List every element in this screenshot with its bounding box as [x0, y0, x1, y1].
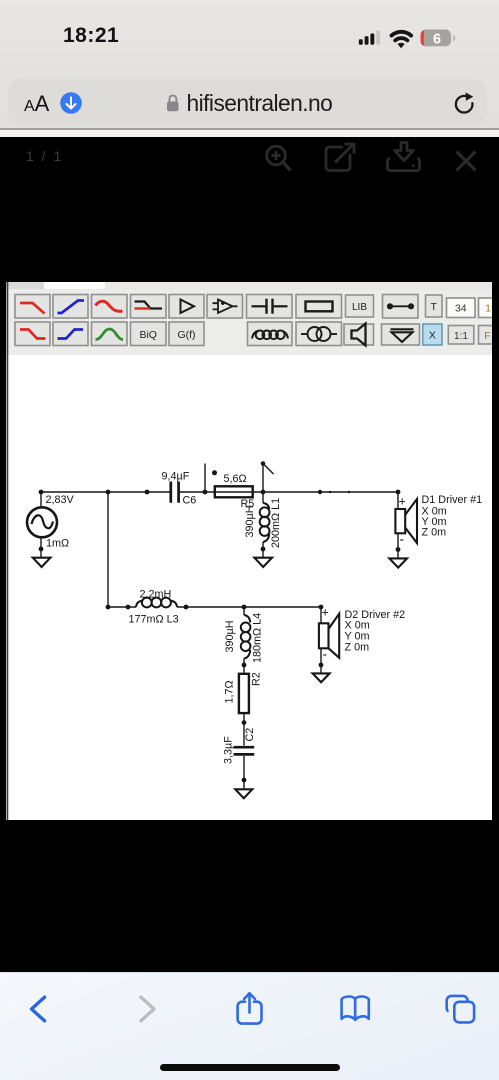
wire lower left segment: [108, 606, 136, 608]
glyph lowpass red: [20, 303, 45, 314]
svg-text:Z 0m: Z 0m: [422, 527, 447, 539]
svg-text:2,2mH: 2,2mH: [140, 589, 172, 601]
bottom toolbar: [0, 972, 499, 1080]
glyph capacitor: [252, 299, 288, 314]
button G(f): [169, 322, 204, 346]
wire diagonal whisker: [263, 464, 274, 475]
svg-text:6: 6: [433, 32, 441, 48]
wire D1 top lead: [397, 492, 399, 509]
wire L1 bottom lead: [262, 542, 264, 557]
svg-text:1: 1: [485, 302, 491, 314]
white PDF page: [6, 282, 492, 820]
wire D2 top lead: [320, 607, 322, 623]
capacitor C2: [234, 747, 255, 754]
button opamp: [207, 295, 243, 319]
glyph ground-arrow: [391, 329, 414, 342]
schematic app window SVG goes here: [6, 282, 492, 820]
button transformer: [296, 322, 342, 346]
ground under C2: [235, 789, 252, 798]
glyph black/red step: [135, 302, 163, 309]
blue download circle: [60, 92, 82, 114]
app toolbar background: [6, 290, 492, 355]
svg-text:1 / 1: 1 / 1: [26, 148, 63, 164]
hairline + white strip under chrome: [0, 128, 499, 130]
wire D1 bottom lead: [397, 534, 399, 559]
svg-text:180mΩ L4: 180mΩ L4: [252, 613, 264, 663]
button play: [169, 295, 204, 319]
button inductor: [248, 322, 293, 346]
button T: [426, 295, 443, 317]
ground under L1: [254, 558, 272, 567]
svg-text:390µH: 390µH: [224, 620, 236, 652]
svg-text:1,7Ω: 1,7Ω: [224, 680, 236, 703]
app window top strip: [6, 282, 492, 290]
wire vertical to lower branch: [107, 492, 109, 607]
status icons svg: [350, 24, 462, 50]
field 1:1: [448, 326, 474, 345]
speaker D1: [395, 499, 417, 543]
glyph bell green: [96, 329, 124, 340]
capacitor C6: [171, 482, 179, 503]
reload icon: [452, 92, 476, 116]
wire source top lead: [40, 492, 42, 507]
glyph step-dn red r2: [20, 330, 46, 339]
light top chrome: [0, 0, 499, 130]
button lowpass red: [15, 295, 50, 319]
wire L1 top lead: [262, 492, 264, 503]
wire main left segment: [41, 491, 170, 493]
svg-text:C6: C6: [183, 495, 197, 507]
glyph play triangle: [181, 300, 195, 314]
clock: [63, 24, 119, 48]
button BiQ: [131, 322, 167, 346]
svg-text:-: -: [400, 532, 405, 547]
svg-text:+: +: [399, 495, 406, 509]
inductor L3: [136, 598, 177, 608]
svg-text:2,83V: 2,83V: [46, 494, 75, 506]
button step-dn red r2: [15, 322, 50, 346]
wire main right segment: [180, 491, 399, 493]
glyph transformer: [301, 327, 337, 341]
ground under D1: [389, 558, 407, 567]
svg-text:5,6Ω: 5,6Ω: [224, 473, 247, 485]
svg-text:R2: R2: [251, 672, 263, 686]
svg-text:390µH: 390µH: [244, 505, 256, 537]
wire lower right segment: [177, 606, 321, 608]
svg-text:-: -: [323, 647, 328, 662]
button highpass blue: [53, 295, 88, 319]
wire L4 to R2: [243, 659, 245, 674]
svg-text:Z 0m: Z 0m: [345, 642, 370, 654]
svg-text:34: 34: [455, 302, 467, 314]
svg-text:177mΩ L3: 177mΩ L3: [129, 614, 179, 626]
resistor R5: [215, 486, 253, 497]
glyph speaker small: [352, 324, 366, 346]
button ground-arrow: [382, 324, 420, 345]
svg-text:BiQ: BiQ: [139, 329, 157, 341]
junction dots: [39, 461, 401, 782]
field 34: [447, 298, 476, 318]
button capacitor: [247, 295, 293, 319]
wire C2 to ground: [243, 756, 245, 789]
button step-up blue r2: [53, 322, 88, 346]
URL pill: [8, 79, 487, 125]
wire R2 to C2: [243, 714, 245, 746]
speaker D2: [319, 614, 339, 658]
svg-text:3,3µF: 3,3µF: [223, 736, 235, 764]
svg-text:1mΩ: 1mΩ: [46, 538, 69, 550]
svg-text:G(f): G(f): [177, 329, 195, 341]
svg-text:200mΩ L1: 200mΩ L1: [270, 498, 282, 548]
svg-text:D1 Driver #1: D1 Driver #1: [422, 494, 483, 506]
button wire: [383, 295, 419, 319]
wire source bottom lead: [40, 538, 42, 558]
field F clipped: [479, 326, 494, 345]
app window left border: [7, 282, 9, 820]
AA reader control: [24, 93, 49, 115]
glyph resistor: [306, 302, 333, 312]
glyph wire dot-line: [388, 304, 413, 308]
inductor L4: [241, 615, 251, 659]
button smooth red: [92, 295, 128, 319]
button black/red step: [131, 295, 167, 319]
field clipped: [479, 298, 494, 318]
svg-text:LIB: LIB: [352, 302, 367, 313]
button bell green: [92, 322, 128, 346]
node dot floating: [212, 470, 217, 475]
voltage source V: [27, 507, 57, 537]
button resistor: [296, 295, 342, 319]
svg-text:X: X: [429, 329, 436, 341]
wire D2 bottom lead: [320, 649, 322, 674]
glyph smooth red: [96, 301, 123, 311]
button LIB: [346, 295, 374, 317]
ground under D2: [313, 673, 330, 682]
glyph highpass blue: [58, 301, 85, 314]
glyph step-up blue r2: [58, 330, 84, 339]
lock icon: [166, 93, 180, 113]
wire stub node B: [262, 464, 264, 493]
svg-text:C2: C2: [244, 728, 256, 742]
button speaker: [344, 324, 374, 345]
home indicator: [160, 1064, 340, 1071]
svg-text:1:1: 1:1: [454, 331, 468, 342]
button X selected: [423, 324, 442, 345]
wire L4 top lead: [243, 607, 245, 615]
glyph opamp: [213, 300, 238, 314]
svg-text:F: F: [484, 330, 490, 342]
glyph inductor coil: [252, 331, 288, 340]
PDF viewer dark toolbar content: [0, 137, 499, 187]
svg-text:T: T: [430, 301, 437, 313]
inductor L1: [260, 503, 270, 542]
svg-text:9,4µF: 9,4µF: [162, 471, 190, 483]
ground under source: [33, 558, 51, 567]
wire stub node A: [204, 464, 206, 493]
resistor R2: [239, 674, 249, 713]
